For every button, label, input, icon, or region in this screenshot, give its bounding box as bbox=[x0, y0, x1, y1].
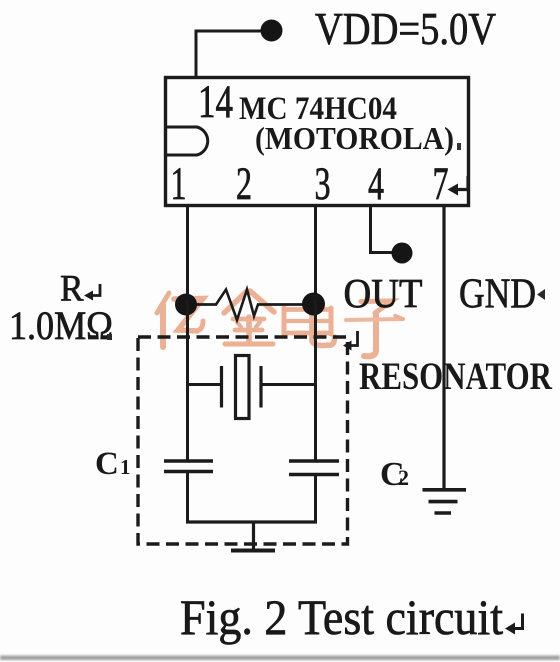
IC notch bbox=[164, 127, 208, 155]
junction dot OUT bbox=[392, 243, 413, 264]
wire left net vertical (pin1 to C1) bbox=[186, 300, 189, 461]
ground resonator bar bbox=[231, 549, 275, 553]
wire pin4 horizontal to OUT bbox=[369, 251, 398, 254]
svg-text:4: 4 bbox=[368, 158, 384, 210]
wire ground stub bbox=[252, 522, 255, 550]
resonator dashed box bbox=[138, 337, 348, 544]
resistor R1 left wire bbox=[186, 303, 217, 306]
resistor R1 zigzag bbox=[216, 290, 258, 321]
wire VDD horizontal bbox=[195, 30, 264, 33]
watermark char 3 (salmon) bbox=[284, 303, 335, 346]
wire pin3 vertical bbox=[314, 206, 317, 306]
wire pin1 vertical bbox=[186, 206, 189, 306]
svg-text:7: 7 bbox=[433, 158, 449, 210]
wire bottom horizontal bbox=[186, 520, 317, 523]
svg-text:C: C bbox=[95, 446, 119, 482]
junction dot pin3-R bbox=[302, 293, 325, 316]
ground pin7 bar2 bbox=[429, 500, 458, 504]
wire pin7 vertical bbox=[442, 206, 445, 490]
ground pin7 bar3 bbox=[435, 511, 452, 515]
watermark char 2 (salmon) bbox=[224, 291, 274, 344]
capacitor C2 bottom plate bbox=[289, 473, 339, 476]
capacitor C1 top plate bbox=[164, 459, 213, 462]
wire pin4 vertical bbox=[369, 206, 372, 253]
svg-text:2: 2 bbox=[236, 158, 252, 210]
svg-text:GND: GND bbox=[459, 272, 536, 318]
ground pin7 bar1 bbox=[423, 488, 467, 492]
svg-text:1: 1 bbox=[120, 455, 131, 479]
capacitor C1 bottom plate bbox=[164, 470, 213, 473]
speck after 1.0Mohm bbox=[107, 334, 112, 340]
svg-text:1: 1 bbox=[171, 158, 187, 210]
resistor R1 right wire bbox=[257, 303, 316, 306]
svg-text:OUT: OUT bbox=[344, 270, 423, 316]
crystal Y1 left plate bbox=[220, 366, 223, 408]
crystal Y1 right plate bbox=[259, 366, 262, 408]
return mark after caption bbox=[513, 614, 523, 629]
svg-text:2: 2 bbox=[398, 465, 409, 490]
crystal Y1 left lead bbox=[188, 383, 223, 386]
crystal Y1 body bbox=[236, 356, 250, 419]
IC U1 MC74HC04 body bbox=[166, 78, 469, 206]
wire below C2 bbox=[314, 475, 317, 523]
wire below C1 bbox=[186, 473, 189, 523]
return mark inside dashed box corner bbox=[350, 331, 358, 346]
capacitor C2 top plate bbox=[289, 459, 339, 462]
junction dot VDD bbox=[261, 20, 283, 42]
small arrow after GND bbox=[537, 289, 545, 300]
svg-text:VDD=5.0V: VDD=5.0V bbox=[315, 4, 496, 54]
wire VDD vertical bbox=[195, 30, 198, 79]
return mark after R bbox=[91, 284, 100, 296]
bottom scan artifact band bbox=[0, 656, 560, 661]
junction dot pin1-R bbox=[175, 294, 197, 316]
crystal Y1 right lead bbox=[261, 383, 316, 386]
watermark char 1 (salmon) bbox=[157, 293, 203, 347]
svg-text:(MOTOROLA): (MOTOROLA) bbox=[255, 120, 454, 156]
svg-text:1.0MΩ: 1.0MΩ bbox=[9, 303, 113, 348]
svg-text:Fig. 2 Test circuit: Fig. 2 Test circuit bbox=[180, 589, 503, 645]
svg-text:3: 3 bbox=[315, 158, 331, 210]
speck after (MOTOROLA) bbox=[457, 143, 461, 150]
svg-text:RESONATOR: RESONATOR bbox=[359, 355, 553, 398]
watermark char 4 (salmon) bbox=[346, 301, 403, 356]
return mark after pin 7 bbox=[456, 176, 468, 190]
wire right net vertical (pin3 to C2) bbox=[314, 300, 317, 461]
svg-text:14: 14 bbox=[198, 76, 233, 128]
